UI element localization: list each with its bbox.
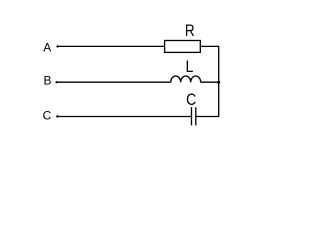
svg-text:C: C: [43, 109, 52, 123]
svg-text:C: C: [186, 91, 196, 109]
svg-text:B: B: [43, 74, 51, 88]
capacitor C1 right plate: [195, 107, 197, 125]
wire A to resistor: [58, 45, 165, 47]
svg-text:R: R: [185, 22, 195, 41]
junction dot on bus at inductor row: [217, 81, 220, 84]
capacitor C1 left plate: [191, 107, 193, 125]
wire B to inductor: [57, 81, 171, 83]
resistor R1 body: [165, 41, 201, 53]
node C terminal dot: [56, 115, 58, 117]
svg-text:L: L: [186, 58, 194, 76]
inductor L1 humps: [171, 76, 201, 82]
node B terminal dot: [55, 81, 57, 83]
node A terminal dot: [56, 45, 58, 47]
wire C to capacitor: [57, 116, 191, 118]
wire resistor to right bus and bus down to capacitor wire: [196, 46, 219, 116]
svg-text:A: A: [43, 41, 51, 55]
wire inductor to bus: [201, 81, 219, 83]
